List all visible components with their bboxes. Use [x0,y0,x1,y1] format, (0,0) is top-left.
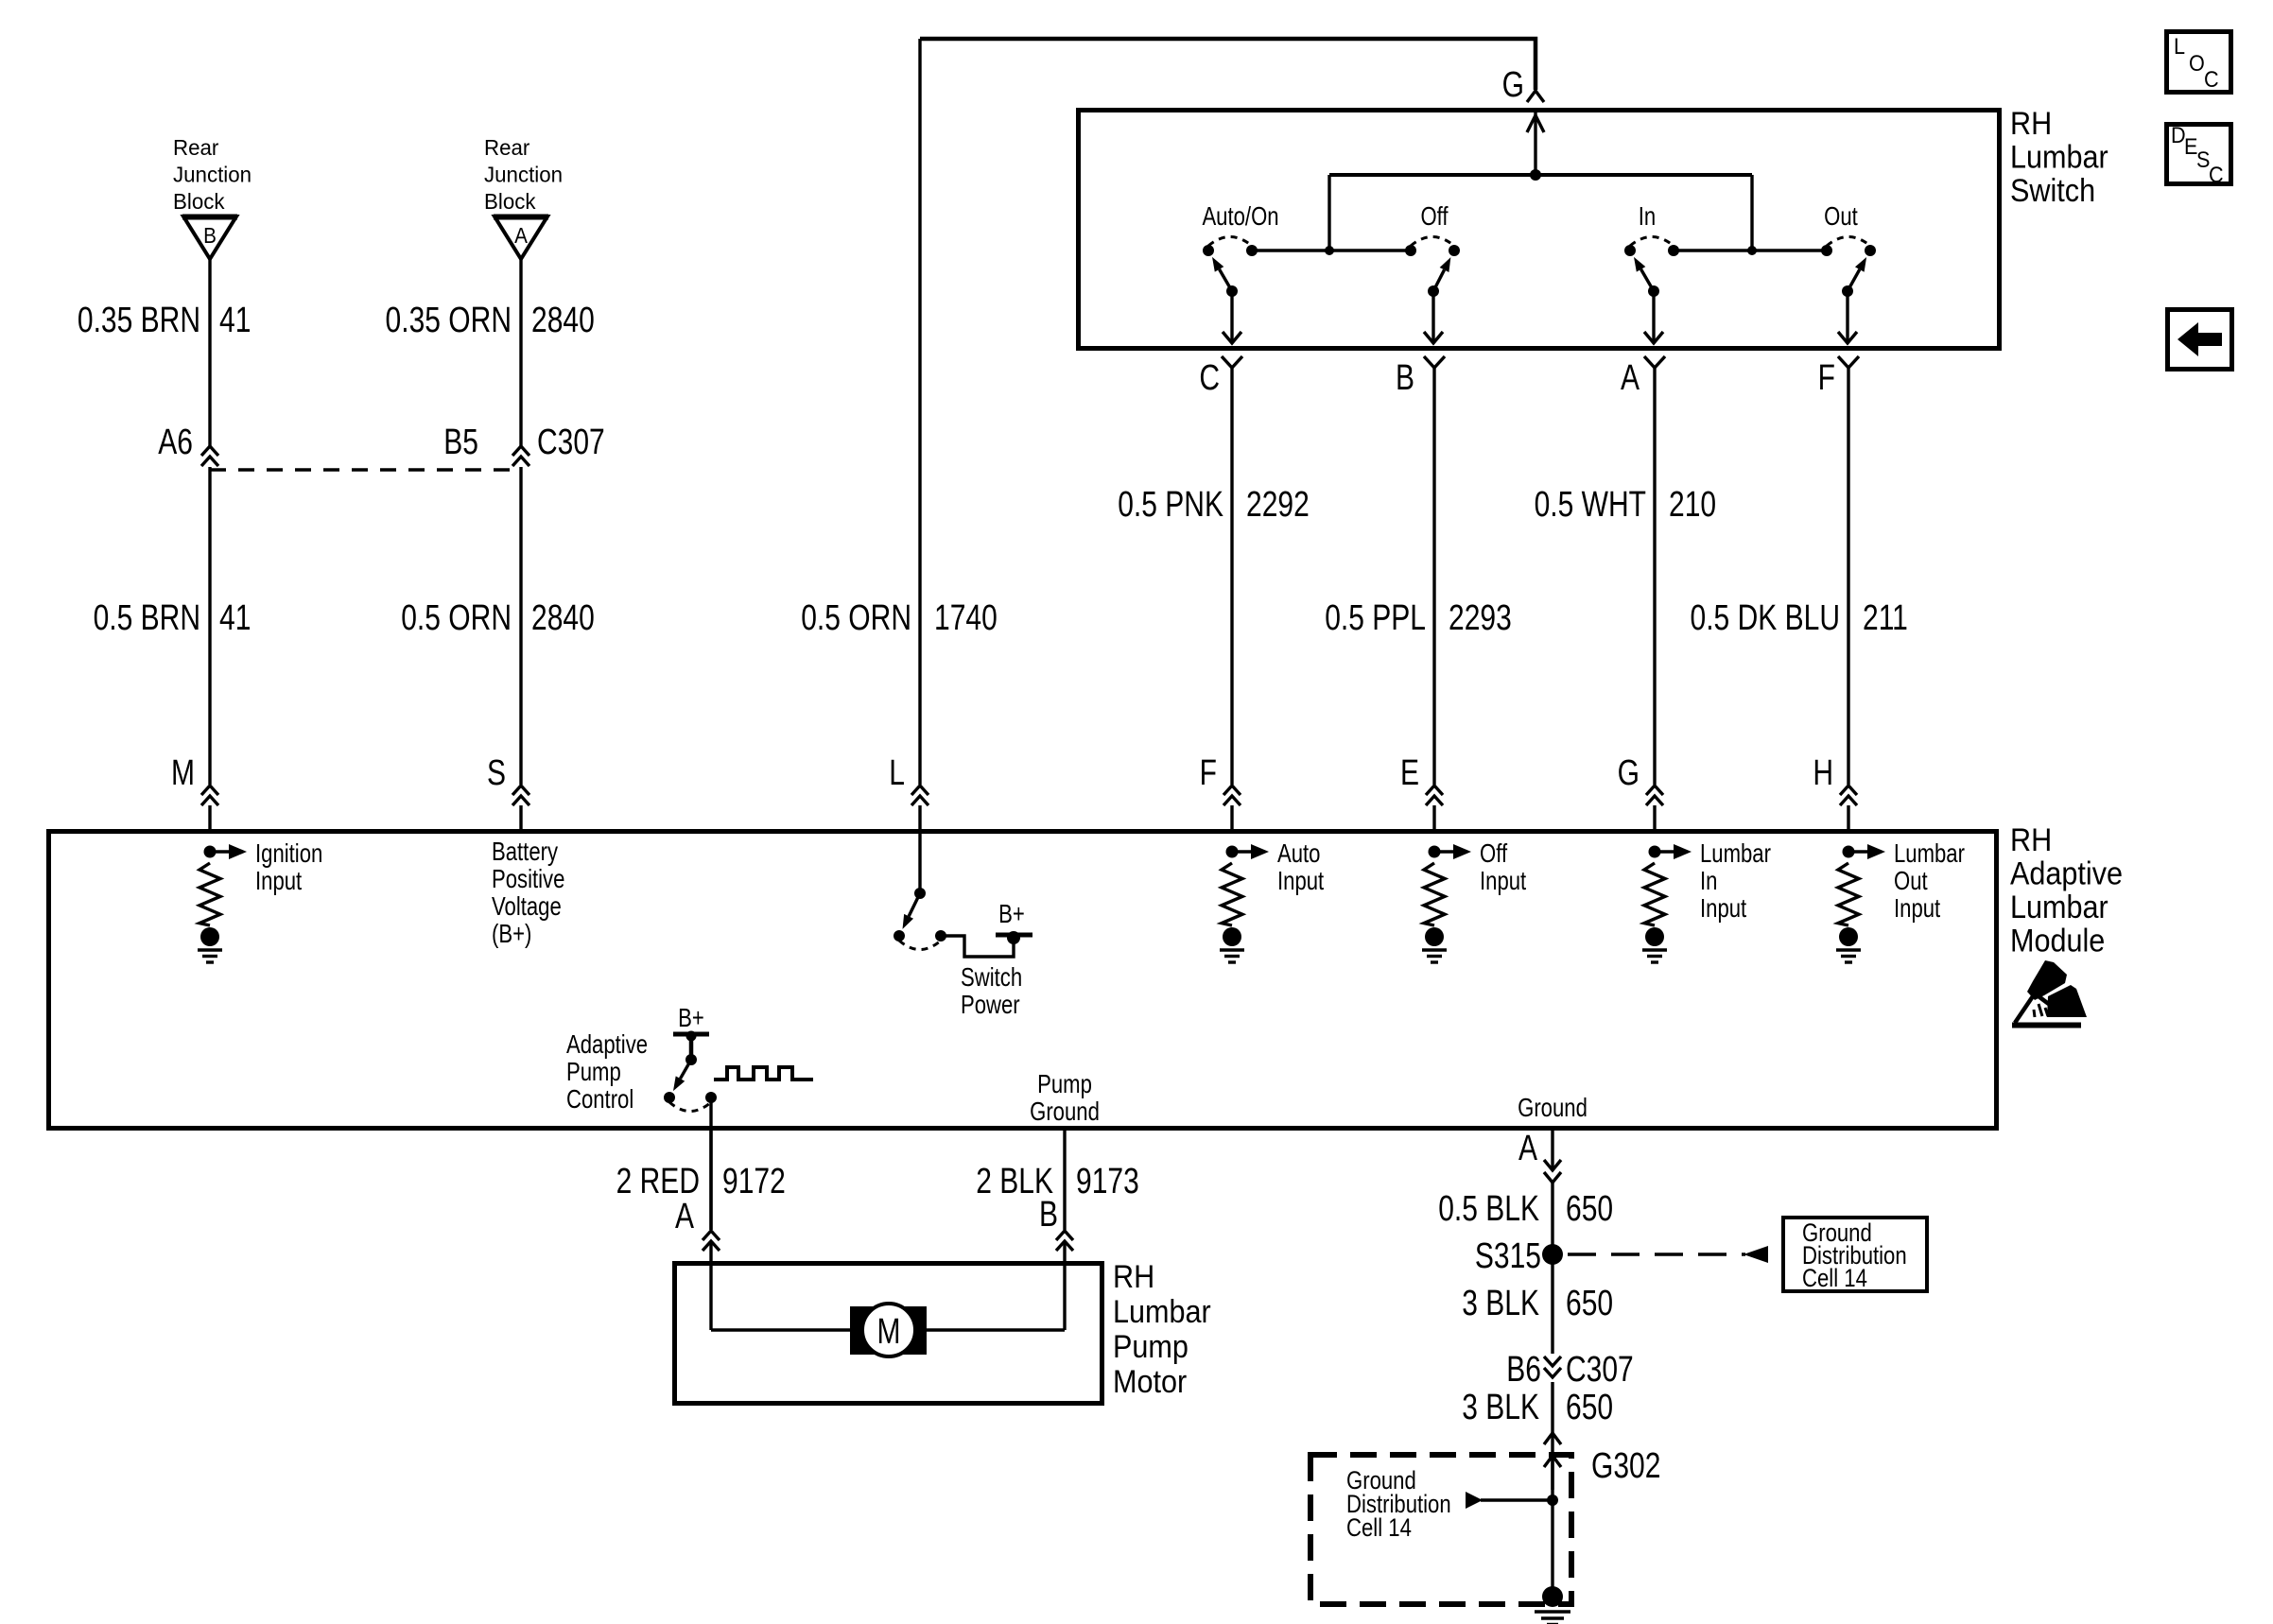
svg-text:2292: 2292 [1246,485,1310,525]
svg-text:B: B [1039,1195,1058,1235]
svg-text:F: F [1200,753,1217,793]
svg-text:B+: B+ [678,1004,704,1033]
svg-text:Rear: Rear [484,135,530,160]
svg-text:B+: B+ [998,900,1025,929]
svg-text:Pump: Pump [1113,1329,1189,1365]
svg-text:2293: 2293 [1449,598,1512,638]
svg-text:211: 211 [1863,598,1908,638]
svg-text:C: C [1199,358,1220,398]
svg-text:Control: Control [566,1085,633,1114]
svg-text:2840: 2840 [531,301,595,340]
svg-text:Lumbar: Lumbar [2010,890,2108,925]
svg-text:L: L [889,753,905,793]
svg-text:Switch: Switch [961,963,1022,993]
svg-text:A: A [675,1197,694,1236]
svg-text:3 BLK: 3 BLK [1462,1388,1539,1427]
svg-text:0.35 ORN: 0.35 ORN [386,301,512,340]
svg-text:C: C [2204,66,2219,92]
svg-text:S315: S315 [1475,1236,1541,1276]
svg-text:O: O [2189,50,2205,76]
svg-text:Adaptive: Adaptive [2010,855,2123,891]
svg-text:Module: Module [2010,923,2105,959]
svg-text:Input: Input [1894,894,1940,924]
svg-text:650: 650 [1566,1189,1613,1229]
svg-text:Off: Off [1480,839,1508,869]
svg-text:Junction: Junction [484,162,563,186]
svg-text:650: 650 [1566,1284,1613,1323]
svg-text:M: M [171,753,195,793]
svg-text:Junction: Junction [173,162,252,186]
svg-text:Cell 14: Cell 14 [1802,1265,1867,1293]
svg-text:Out: Out [1824,202,1858,232]
svg-text:B6: B6 [1506,1350,1541,1390]
svg-text:B5: B5 [443,423,478,462]
svg-text:Ignition: Ignition [255,839,322,869]
svg-text:Power: Power [961,991,1020,1020]
svg-text:41: 41 [219,301,251,340]
svg-text:Switch: Switch [2010,173,2095,209]
svg-text:Input: Input [1700,894,1746,924]
svg-text:C307: C307 [1566,1350,1634,1390]
svg-text:0.5 ORN: 0.5 ORN [801,598,911,638]
svg-text:H: H [1813,753,1833,793]
svg-text:Motor: Motor [1113,1364,1187,1400]
svg-text:650: 650 [1566,1388,1613,1427]
svg-text:A6: A6 [158,423,193,462]
svg-text:Block: Block [173,189,225,214]
svg-text:1740: 1740 [934,598,998,638]
svg-text:G302: G302 [1591,1446,1660,1486]
svg-text:9173: 9173 [1076,1162,1139,1201]
svg-text:Lumbar: Lumbar [1113,1294,1211,1330]
svg-text:Ground: Ground [1518,1094,1588,1123]
svg-text:B: B [1396,358,1414,398]
svg-text:Ground: Ground [1030,1097,1100,1127]
svg-text:Auto: Auto [1277,839,1320,869]
svg-text:Pump: Pump [1037,1070,1092,1099]
svg-text:Input: Input [1480,867,1526,896]
svg-text:Lumbar: Lumbar [1700,839,1771,869]
svg-text:0.5 PPL: 0.5 PPL [1325,598,1426,638]
svg-text:C: C [2209,162,2224,187]
svg-text:Input: Input [255,867,302,896]
svg-text:RH: RH [1113,1259,1154,1295]
svg-text:0.5 ORN: 0.5 ORN [401,598,512,638]
svg-text:RH: RH [2010,822,2052,858]
svg-text:Lumbar: Lumbar [2010,139,2108,175]
svg-text:Cell 14: Cell 14 [1346,1514,1412,1543]
svg-text:Battery: Battery [492,838,558,867]
svg-text:0.5 BRN: 0.5 BRN [94,598,200,638]
svg-text:0.5 DK BLU: 0.5 DK BLU [1691,598,1840,638]
svg-text:Rear: Rear [173,135,219,160]
svg-text:A: A [514,223,528,248]
svg-text:M: M [876,1312,900,1352]
svg-text:2 RED: 2 RED [616,1162,700,1201]
svg-text:(B+): (B+) [492,920,531,949]
svg-text:0.5 PNK: 0.5 PNK [1118,485,1223,525]
svg-text:Out: Out [1894,867,1928,896]
svg-text:In: In [1639,202,1656,232]
svg-text:Pump: Pump [566,1058,621,1087]
svg-text:9172: 9172 [722,1162,786,1201]
svg-text:A: A [1518,1129,1537,1168]
svg-text:0.5 BLK: 0.5 BLK [1438,1189,1539,1229]
svg-text:Lumbar: Lumbar [1894,839,1965,869]
svg-text:RH: RH [2010,106,2052,142]
svg-text:Voltage: Voltage [492,892,562,922]
svg-text:A: A [1621,358,1640,398]
svg-text:In: In [1700,867,1717,896]
svg-text:Off: Off [1420,202,1449,232]
svg-text:S: S [487,753,506,793]
svg-text:Positive: Positive [492,865,564,894]
svg-text:E: E [1400,753,1419,793]
svg-text:G: G [1502,65,1524,105]
svg-text:41: 41 [219,598,251,638]
svg-text:L: L [2174,33,2185,59]
svg-text:F: F [1818,358,1835,398]
svg-text:Adaptive: Adaptive [566,1030,648,1060]
svg-text:B: B [203,223,217,248]
svg-text:Input: Input [1277,867,1324,896]
svg-text:Block: Block [484,189,536,214]
svg-text:210: 210 [1669,485,1716,525]
svg-text:3 BLK: 3 BLK [1462,1284,1539,1323]
svg-text:C307: C307 [537,423,605,462]
svg-text:G: G [1618,753,1640,793]
svg-text:0.35 BRN: 0.35 BRN [78,301,200,340]
svg-text:Auto/On: Auto/On [1202,202,1278,232]
svg-text:0.5 WHT: 0.5 WHT [1535,485,1646,525]
svg-text:2840: 2840 [531,598,595,638]
